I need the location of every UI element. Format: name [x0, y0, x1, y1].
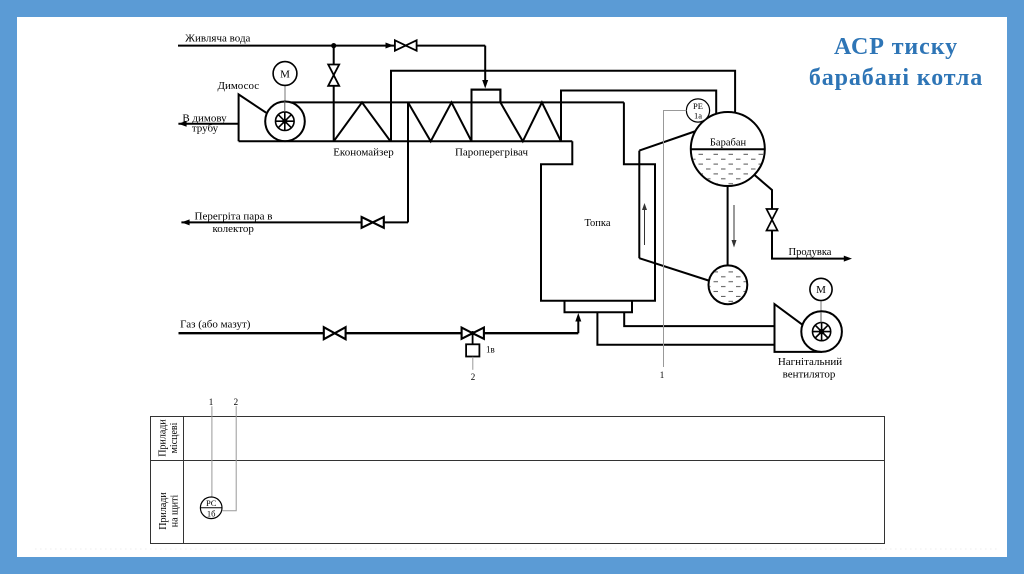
- instrument table frame: [151, 417, 885, 544]
- svg-text:Перегріта пара в: Перегріта пара в: [195, 211, 273, 223]
- wire: gas riser into furnace hopper: [577, 319, 579, 333]
- valve feed water (hollow): [395, 40, 417, 50]
- drum circle Барабан: [691, 112, 765, 186]
- arrow gas into furnace: [575, 313, 581, 322]
- wire: air duct upper: [624, 312, 774, 326]
- arrow flue gas to chimney: [178, 121, 186, 127]
- arrow into collector box: [482, 80, 488, 89]
- svg-text:Топка: Топка: [584, 218, 610, 229]
- lower drum circle: [709, 265, 748, 304]
- svg-text:1б: 1б: [207, 508, 216, 518]
- valve steam collector (filled): [362, 217, 384, 228]
- flow arrow on feed line: [386, 43, 394, 49]
- impeller wheel: [813, 323, 831, 341]
- svg-text:Живляча вода: Живляча вода: [185, 33, 250, 45]
- wire: gas line: [179, 332, 579, 334]
- junction dot feed line: [331, 43, 336, 48]
- svg-text:на щиті: на щиті: [170, 495, 181, 528]
- motor M2 circle: [810, 278, 832, 300]
- wire: blowdown from drum: [754, 175, 772, 210]
- wire: flue duct bottom: [239, 140, 573, 142]
- svg-text:Нагнітальний: Нагнітальний: [778, 356, 842, 368]
- signal drop line 2: [222, 406, 236, 511]
- faint dotted divider near bottom of slide: [35, 548, 1000, 550]
- wire: feed water drop to vertical valve and economizer inlet: [333, 46, 335, 142]
- svg-text:1: 1: [209, 397, 214, 407]
- flow arrow down in downcomer: [733, 205, 735, 245]
- svg-text:Пароперегрівач: Пароперегрівач: [455, 147, 529, 159]
- drum water: [690, 151, 766, 187]
- wire: air duct lower: [597, 312, 774, 345]
- furnace Топка outline: [541, 102, 655, 312]
- svg-text:РЕ: РЕ: [693, 101, 703, 111]
- wire: diagonal to lower drum: [639, 258, 710, 281]
- wire: superheater outlet down to collector header: [407, 102, 409, 222]
- arrow steam to collector: [181, 219, 189, 225]
- valve blowdown vertical (hollow): [767, 209, 778, 231]
- svg-text:барабані котла: барабані котла: [809, 65, 983, 91]
- wire: feed water main line: [178, 45, 485, 47]
- drum water line: [691, 148, 765, 150]
- svg-text:1а: 1а: [694, 111, 702, 121]
- svg-text:АСР тиску: АСР тиску: [834, 34, 958, 60]
- economizer zigzag: [334, 102, 391, 141]
- impeller wheel: [276, 112, 295, 131]
- instrument PE 1a bubble: [686, 99, 709, 122]
- smoke exhauster housing beak: [239, 94, 267, 141]
- fan casing circle: [801, 311, 842, 352]
- motor M1 circle: [273, 62, 297, 86]
- svg-text:Продувка: Продувка: [789, 247, 832, 258]
- wire: drum steam line to superheater: [561, 91, 716, 142]
- wire: superheated steam line to collector: [181, 221, 408, 223]
- actuator box 1в: [466, 344, 479, 356]
- motor stem: [820, 301, 822, 332]
- superheater zigzag: [408, 90, 561, 142]
- fan housing beak: [775, 304, 823, 352]
- svg-text:Прилади: Прилади: [158, 492, 169, 530]
- instrument PC 1b bubble: [200, 497, 222, 519]
- wire: flue duct top: [285, 101, 624, 103]
- svg-text:2: 2: [471, 372, 476, 382]
- svg-text:Газ (або мазут): Газ (або мазут): [180, 319, 251, 331]
- valve feed bypass vertical (hollow): [328, 65, 339, 86]
- svg-text:2: 2: [234, 397, 239, 407]
- smoke exhauster casing circle: [265, 102, 305, 142]
- motor stem: [284, 85, 286, 121]
- actuator stem: [472, 333, 474, 344]
- svg-text:колектор: колектор: [213, 223, 255, 235]
- flow arrow up in rear channel: [644, 206, 646, 245]
- svg-text:1в: 1в: [486, 345, 495, 355]
- svg-text:Економайзер: Економайзер: [333, 147, 394, 159]
- svg-text:Димосос: Димосос: [217, 80, 259, 92]
- svg-text:місцеві: місцеві: [169, 422, 180, 453]
- wire: riser diagonal to drum: [639, 131, 696, 151]
- attemperator header box on superheater: [472, 90, 501, 103]
- valve gas control (filled): [462, 328, 484, 339]
- wire: blowdown through valve to arrow: [772, 231, 845, 259]
- svg-text:Прилади: Прилади: [158, 419, 169, 457]
- signal line 1 from PE: [664, 111, 687, 368]
- wire: economizer outlet riser to drum: [391, 71, 735, 142]
- arrow blowdown: [844, 256, 852, 262]
- wire: flue gas exit line to chimney: [178, 123, 238, 125]
- furnace hopper box: [565, 301, 633, 312]
- wire: downcomer drum to lower drum: [727, 184, 729, 267]
- svg-text:вентилятор: вентилятор: [783, 369, 836, 381]
- signal drop line 1: [211, 406, 213, 497]
- valve gas shutoff (filled): [324, 327, 346, 339]
- svg-text:РС: РС: [206, 498, 217, 508]
- svg-text:трубу: трубу: [192, 123, 219, 135]
- table label column divider: [183, 417, 185, 544]
- svg-text:1: 1: [660, 370, 665, 380]
- svg-text:М: М: [280, 69, 290, 81]
- rear gas channel left wall: [638, 151, 640, 259]
- svg-text:М: М: [816, 284, 826, 296]
- signal line 2 from actuator: [472, 357, 474, 370]
- wire: attemperator drop into collector box: [484, 46, 486, 82]
- table row divider: [151, 460, 885, 462]
- svg-text:Барабан: Барабан: [710, 138, 747, 149]
